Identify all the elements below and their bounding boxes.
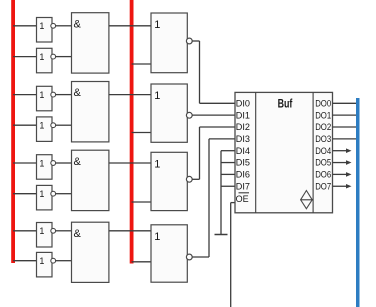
wire inverter U3 to AND U10 input 1: [56, 94, 72, 96]
wire DI7 stub to tie rail: [221, 185, 235, 187]
NOR gate U16 (IEC "1" box with bubble): [151, 225, 187, 282]
net bus rail B (middle red supply bus): [130, 0, 134, 264]
svg-text:DI3: DI3: [236, 134, 250, 144]
wire DO0 to blue bus: [333, 102, 357, 104]
wire bus B to NOR U16 input 2: [132, 261, 151, 263]
svg-text:DI4: DI4: [236, 146, 250, 156]
AND gate U9 (IEC "&" box): [72, 13, 109, 73]
wire bus A to inverter U4 input: [13, 124, 36, 126]
inverter U2 (IEC "1" box): [37, 48, 53, 73]
wire bus A to inverter U1 input: [13, 25, 36, 27]
inverter U3 output bubble: [51, 92, 56, 97]
wire DO4 open connection arrow: [333, 148, 352, 153]
svg-text:DI6: DI6: [236, 170, 250, 180]
inverter U7 output bubble: [51, 228, 56, 233]
inverter U7 (IEC "1" box): [37, 223, 53, 248]
wire NOR U16 output to DI3 (right, up, right): [192, 139, 235, 257]
wire inverter U1 to AND U9 input 1: [56, 25, 72, 27]
inverter U3 (IEC "1" box): [37, 86, 53, 111]
wire DI5 stub to tie rail: [221, 162, 235, 164]
svg-text:1: 1: [154, 90, 160, 102]
net bus rail OUT (right blue output bus): [356, 98, 360, 307]
wire bus B to NOR U15 input 2: [132, 201, 151, 203]
wire bus B to NOR U14 input 2: [132, 132, 151, 134]
inverter U8 (IEC "1" box): [37, 252, 53, 277]
wire bus A to inverter U6 input: [13, 193, 36, 195]
AND gate U10 (IEC "&" box): [72, 82, 109, 142]
NOR gate U14 (IEC "1" box with bubble): [151, 84, 187, 142]
svg-text:1: 1: [154, 231, 160, 243]
svg-text:OE: OE: [236, 194, 249, 205]
inverter U4 (IEC "1" box): [37, 117, 53, 141]
svg-text:1: 1: [39, 256, 44, 266]
svg-text:DI5: DI5: [236, 158, 250, 168]
buffer U17 "Buf" body: [235, 92, 333, 212]
buffer U17 pin-label column divider right: [312, 92, 314, 212]
svg-text:1: 1: [154, 19, 160, 31]
svg-text:1: 1: [39, 226, 44, 236]
wire AND U10 output to NOR U14 input 1 (crosses bus B): [109, 94, 151, 96]
NOR gate U15 output bubble: [186, 176, 192, 182]
svg-text:DO6: DO6: [315, 170, 331, 180]
svg-text:DI7: DI7: [236, 181, 250, 191]
svg-text:DO5: DO5: [315, 158, 331, 168]
svg-text:&: &: [74, 18, 82, 30]
svg-text:&: &: [74, 228, 82, 240]
svg-text:DO7: DO7: [315, 181, 331, 191]
wire DO2 to blue bus: [333, 126, 357, 128]
svg-text:DI1: DI1: [236, 110, 250, 120]
ground terminal symbol: [215, 234, 228, 236]
wire vertical tie rail for DI4-DI7: [220, 151, 222, 235]
svg-text:1: 1: [39, 52, 44, 62]
wire AND U9 output to NOR U13 input 1 (crosses bus B): [109, 25, 151, 27]
svg-text:DO3: DO3: [315, 134, 331, 144]
wire DO5 open connection arrow: [333, 160, 352, 165]
wire bus A to inverter U8 input: [13, 260, 36, 262]
wire inverter U6 to AND U11 input 2: [56, 193, 72, 195]
inverter U8 output bubble: [51, 258, 56, 263]
wire bus A to inverter U2 input: [13, 56, 36, 58]
svg-text:DO4: DO4: [315, 146, 331, 156]
svg-text:DO2: DO2: [315, 122, 331, 132]
NOR gate U15 (IEC "1" box with bubble): [151, 152, 187, 210]
wire NOR U15 output to DI2 (right, up, right): [192, 127, 235, 179]
svg-text:1: 1: [39, 158, 44, 168]
AND gate U12 (IEC "&" box): [72, 222, 109, 282]
inverter U1 output bubble: [51, 23, 56, 28]
wire inverter U8 to AND U12 input 2: [56, 260, 72, 262]
wire DI6 stub to tie rail: [221, 173, 235, 175]
svg-text:DI0: DI0: [236, 98, 250, 108]
wire bus A to inverter U7 input: [13, 230, 36, 232]
NOR gate U13 output bubble: [186, 38, 192, 44]
wire DI4 stub to tie rail: [221, 150, 235, 152]
wire inverter U5 to AND U11 input 1: [56, 162, 72, 164]
svg-text:1: 1: [39, 90, 44, 100]
svg-text:1: 1: [39, 21, 44, 31]
wire inverter U2 to AND U9 input 2: [56, 56, 72, 58]
wire inverter U4 to AND U10 input 2: [56, 124, 72, 126]
svg-text:&: &: [74, 87, 82, 99]
svg-text:DI2: DI2: [236, 122, 250, 132]
inverter U5 (IEC "1" box): [37, 155, 53, 180]
wire AND U12 output to NOR U16 input 1 (crosses bus B): [109, 230, 151, 232]
pin label OE (active low, overline): [236, 193, 249, 205]
inverter U2 output bubble: [51, 54, 56, 59]
svg-text:DO1: DO1: [315, 110, 331, 120]
svg-text:1: 1: [39, 121, 44, 131]
wire NOR U14 output to DI1 (straight): [192, 114, 235, 116]
svg-text:1: 1: [39, 189, 44, 199]
inverter U6 output bubble: [51, 191, 56, 196]
inverter U5 output bubble: [51, 161, 56, 166]
NOR gate U16 output bubble: [186, 254, 192, 260]
wire bus B to NOR U13 input 2: [132, 63, 151, 65]
NOR gate U14 output bubble: [186, 112, 192, 118]
wire DO3 to blue bus: [333, 138, 357, 140]
NOR gate U13 (IEC "1" box with bubble): [151, 13, 187, 73]
wire bus A to inverter U5 input: [13, 162, 36, 164]
buffer U17 pin-label column divider left: [255, 92, 257, 212]
inverter U6 (IEC "1" box): [37, 185, 53, 210]
wire DO7 open connection arrow: [333, 184, 352, 189]
inverter U1 (IEC "1" box): [37, 18, 53, 43]
wire inverter U7 to AND U12 input 1: [56, 230, 72, 232]
AND gate U11 (IEC "&" box): [72, 150, 109, 210]
wire NOR U13 output to DI0 (right, down, right): [192, 41, 235, 103]
wire DO1 to blue bus: [333, 114, 357, 116]
svg-text:&: &: [74, 156, 82, 168]
tri-state symbol (diamond) inside buffer: [301, 191, 313, 209]
wire bus A to inverter U3 input: [13, 94, 36, 96]
svg-text:Buf: Buf: [278, 96, 294, 110]
net bus rail A (left red supply bus): [11, 0, 15, 263]
svg-text:DO0: DO0: [315, 98, 331, 108]
svg-text:1: 1: [154, 158, 160, 170]
inverter U4 output bubble: [51, 123, 56, 128]
wire OE pin down to page edge: [231, 203, 235, 307]
wire DO6 open connection arrow: [333, 172, 352, 177]
wire AND U11 output to NOR U15 input 1 (crosses bus B): [109, 162, 151, 164]
